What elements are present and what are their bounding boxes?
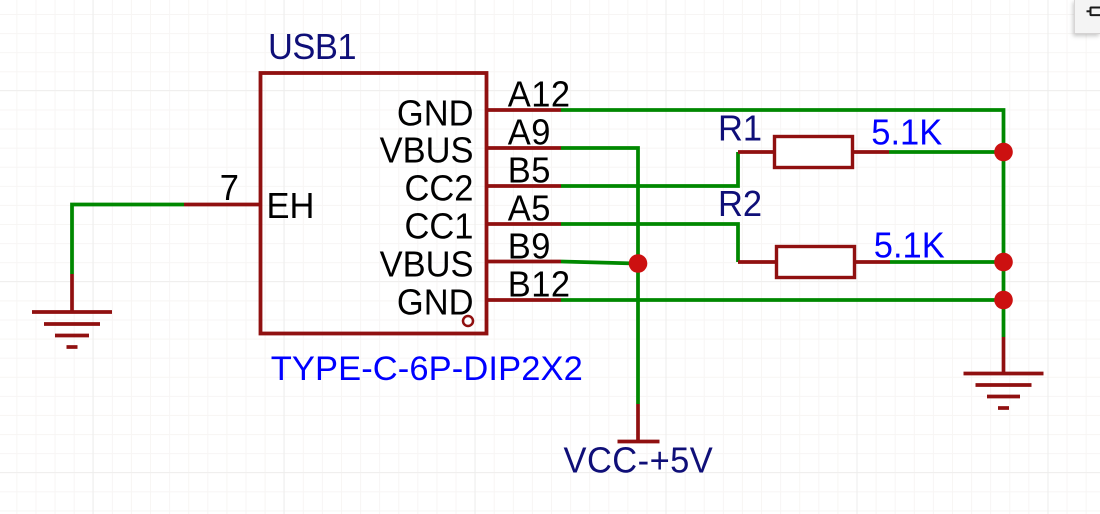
svg-text:B5: B5 [508, 151, 551, 191]
svg-text:GND: GND [397, 283, 474, 323]
svg-text:EH: EH [267, 186, 315, 226]
svg-text:USB1: USB1 [268, 28, 356, 68]
svg-text:TYPE-C-6P-DIP2X2: TYPE-C-6P-DIP2X2 [271, 350, 583, 388]
svg-text:R2: R2 [718, 184, 762, 224]
svg-text:CC1: CC1 [405, 207, 474, 247]
svg-text:VBUS: VBUS [380, 245, 474, 285]
svg-text:B9: B9 [508, 227, 551, 267]
svg-text:B12: B12 [508, 265, 571, 305]
svg-text:R1: R1 [718, 109, 762, 149]
svg-text:5.1K: 5.1K [874, 226, 945, 266]
svg-text:VBUS: VBUS [380, 131, 474, 171]
svg-text:A9: A9 [508, 113, 551, 153]
svg-text:CC2: CC2 [405, 169, 474, 209]
svg-text:VCC-+5V: VCC-+5V [564, 441, 714, 481]
svg-text:7: 7 [220, 168, 239, 208]
svg-text:5.1K: 5.1K [871, 113, 942, 153]
svg-text:A12: A12 [508, 75, 571, 115]
svg-text:A5: A5 [508, 189, 551, 229]
svg-text:GND: GND [397, 94, 474, 134]
